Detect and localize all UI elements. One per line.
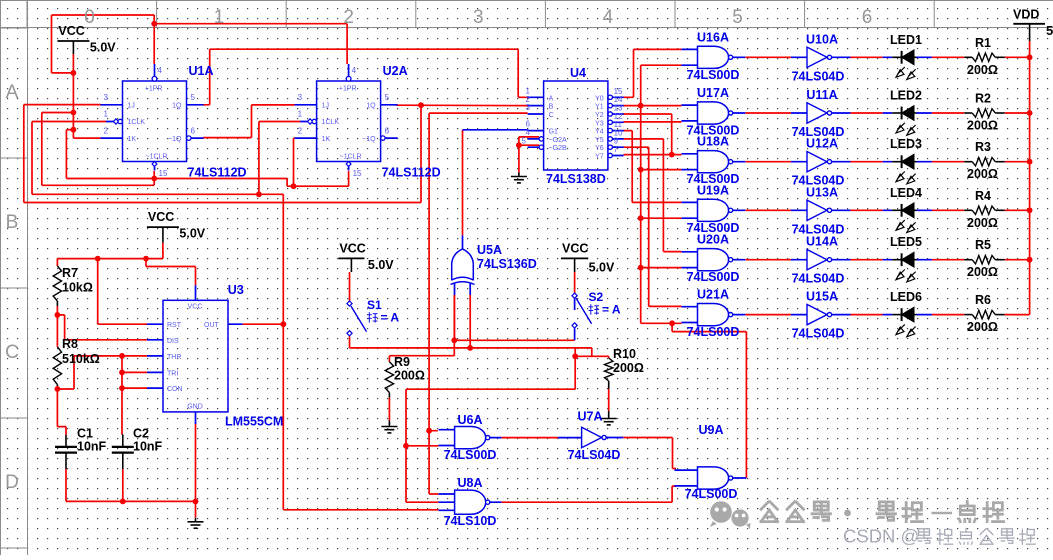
svg-text:Y7: Y7 (595, 154, 604, 161)
svg-text:10nF: 10nF (77, 440, 107, 454)
svg-text:R4: R4 (975, 189, 991, 203)
svg-text:74LS00D: 74LS00D (687, 68, 740, 82)
svg-text:LM555CM: LM555CM (225, 415, 283, 429)
svg-text:= A: = A (381, 311, 400, 325)
svg-text:~G2A: ~G2A (549, 137, 567, 144)
svg-text:+1PR: +1PR (145, 86, 163, 93)
svg-text:U15A: U15A (806, 290, 838, 304)
svg-text:5: 5 (522, 136, 527, 145)
svg-text:~1Q: ~1Q (362, 136, 376, 143)
svg-text:5.0V: 5.0V (179, 227, 205, 241)
svg-text:G1: G1 (549, 129, 558, 136)
svg-text:U1A: U1A (189, 64, 214, 78)
svg-text:4: 4 (526, 128, 531, 137)
svg-text:R5: R5 (975, 238, 991, 252)
svg-text:2: 2 (298, 127, 303, 136)
svg-text:+1PR: +1PR (339, 86, 357, 93)
svg-text:R10: R10 (613, 347, 636, 361)
svg-text:1Q: 1Q (172, 103, 182, 110)
svg-text:U8A: U8A (457, 476, 482, 490)
svg-text:10nF: 10nF (133, 440, 163, 454)
svg-text:Y5: Y5 (595, 137, 604, 144)
svg-text:CSDN @: CSDN @ (843, 526, 919, 547)
svg-text:4: 4 (352, 66, 357, 75)
svg-text:4: 4 (603, 7, 614, 28)
svg-text:74LS136D: 74LS136D (477, 257, 537, 271)
svg-text:LED4: LED4 (890, 186, 922, 200)
svg-text:200Ω: 200Ω (967, 119, 998, 133)
svg-text:VCC: VCC (58, 24, 84, 38)
svg-text:74LS04D: 74LS04D (792, 69, 845, 83)
svg-text:U11A: U11A (806, 88, 837, 102)
svg-text:74LS04D: 74LS04D (792, 272, 845, 286)
svg-text:RST: RST (167, 322, 182, 329)
svg-text:200Ω: 200Ω (967, 320, 998, 334)
svg-text:U18A: U18A (697, 135, 729, 149)
svg-text:U9A: U9A (698, 423, 723, 437)
svg-text:U20A: U20A (697, 233, 729, 247)
svg-text:1CLK: 1CLK (322, 119, 340, 126)
svg-text:LED5: LED5 (890, 235, 922, 249)
svg-text:R7: R7 (62, 266, 78, 280)
svg-text:Y0: Y0 (595, 95, 604, 102)
svg-text:U19A: U19A (697, 183, 729, 197)
svg-text:1: 1 (298, 110, 303, 119)
svg-text:74LS04D: 74LS04D (792, 327, 845, 341)
svg-text:0: 0 (84, 7, 95, 28)
svg-text:VCC: VCC (148, 210, 174, 224)
svg-text:U13A: U13A (806, 185, 838, 199)
svg-text:VCC: VCC (188, 304, 203, 311)
svg-text:1K: 1K (128, 136, 137, 143)
svg-text:6: 6 (191, 127, 196, 136)
svg-text:Y2: Y2 (595, 112, 604, 119)
svg-text:200Ω: 200Ω (967, 216, 998, 230)
svg-text:74LS112D: 74LS112D (188, 166, 247, 180)
svg-text:U4: U4 (570, 66, 586, 80)
svg-text:VDD: VDD (1013, 8, 1039, 22)
svg-text:74LS00D: 74LS00D (685, 487, 738, 501)
svg-text:1J: 1J (128, 103, 135, 110)
svg-text:74LS00D: 74LS00D (687, 270, 740, 284)
svg-text:15: 15 (159, 169, 168, 178)
svg-text:VCC: VCC (339, 241, 365, 255)
svg-text:2: 2 (343, 7, 354, 28)
svg-text:B: B (549, 104, 554, 111)
svg-text:5: 5 (385, 93, 390, 102)
svg-text:5.0V: 5.0V (368, 258, 394, 272)
svg-text:Y6: Y6 (595, 145, 604, 152)
svg-text:3: 3 (104, 93, 109, 102)
svg-text:~1CLR: ~1CLR (146, 154, 168, 161)
svg-text:DIS: DIS (167, 338, 179, 345)
svg-text:C: C (5, 342, 19, 363)
svg-text:2: 2 (104, 127, 109, 136)
svg-text:VCC: VCC (562, 241, 588, 255)
svg-text:Y4: Y4 (595, 129, 604, 136)
svg-text:C: C (549, 112, 554, 119)
svg-text:74LS00D: 74LS00D (444, 448, 497, 462)
svg-text:U12A: U12A (806, 137, 838, 151)
svg-text:200Ω: 200Ω (394, 369, 425, 383)
svg-text:200Ω: 200Ω (967, 265, 998, 279)
svg-text:U2A: U2A (383, 64, 408, 78)
svg-text:LED1: LED1 (890, 33, 922, 47)
svg-text:= A: = A (602, 303, 621, 317)
svg-text:U10A: U10A (806, 32, 838, 46)
svg-text:6: 6 (385, 127, 390, 136)
svg-text:74LS112D: 74LS112D (382, 166, 441, 180)
svg-text:1CLK: 1CLK (128, 119, 146, 126)
svg-text:1: 1 (104, 110, 109, 119)
svg-text:15: 15 (353, 169, 362, 178)
svg-text:74LS138D: 74LS138D (546, 172, 606, 186)
svg-text:LED3: LED3 (890, 137, 922, 151)
svg-text:~1CLR: ~1CLR (340, 154, 362, 161)
svg-text:1J: 1J (322, 103, 329, 110)
svg-text:6: 6 (862, 7, 873, 28)
svg-text:U5A: U5A (477, 243, 502, 257)
svg-text:3: 3 (298, 93, 303, 102)
svg-text:~1Q: ~1Q (168, 136, 182, 143)
svg-text:GND: GND (187, 404, 203, 411)
svg-text:74LS00D: 74LS00D (687, 325, 740, 339)
svg-text:CON: CON (167, 386, 183, 393)
svg-text:510kΩ: 510kΩ (62, 352, 100, 366)
svg-text:1Q: 1Q (366, 103, 376, 110)
svg-text:B: B (6, 212, 19, 233)
svg-text:OUT: OUT (204, 322, 220, 329)
svg-text:200Ω: 200Ω (967, 63, 998, 77)
svg-text:1K: 1K (322, 136, 331, 143)
svg-text:TRI: TRI (167, 370, 178, 377)
svg-text:10kΩ: 10kΩ (62, 281, 93, 295)
svg-text:U3: U3 (228, 283, 244, 297)
svg-text:~G2B: ~G2B (549, 145, 567, 152)
svg-text:A: A (549, 95, 554, 102)
svg-text:5.0V: 5.0V (90, 41, 116, 55)
svg-text:C2: C2 (133, 427, 149, 441)
svg-text:7: 7 (614, 145, 619, 154)
svg-text:U7A: U7A (577, 410, 602, 424)
svg-text:U21A: U21A (697, 288, 729, 302)
svg-text:U6A: U6A (457, 413, 482, 427)
svg-text:LED2: LED2 (890, 89, 922, 103)
svg-text:U16A: U16A (697, 30, 729, 44)
svg-text:D: D (5, 472, 19, 493)
svg-text:200Ω: 200Ω (613, 361, 644, 375)
svg-text:74LS10D: 74LS10D (444, 514, 497, 528)
svg-text:LED6: LED6 (890, 290, 922, 304)
svg-text:THR: THR (167, 354, 181, 361)
svg-text:1: 1 (214, 7, 225, 28)
svg-text:Y3: Y3 (595, 120, 604, 127)
svg-text:Y1: Y1 (595, 104, 604, 111)
svg-text:200Ω: 200Ω (967, 167, 998, 181)
svg-text:5: 5 (191, 93, 196, 102)
svg-text:74LS04D: 74LS04D (568, 448, 621, 462)
svg-text:3: 3 (526, 103, 531, 112)
svg-text:3: 3 (473, 7, 484, 28)
svg-text:U14A: U14A (806, 235, 838, 249)
svg-text:5.0V: 5.0V (589, 260, 615, 274)
svg-text:R3: R3 (975, 140, 991, 154)
svg-text:R6: R6 (975, 293, 991, 307)
svg-text:C1: C1 (77, 427, 93, 441)
svg-text:U17A: U17A (697, 86, 729, 100)
svg-text:A: A (6, 82, 19, 103)
svg-text:R8: R8 (62, 337, 78, 351)
svg-text:R2: R2 (975, 92, 991, 106)
svg-text:4: 4 (158, 66, 163, 75)
svg-text:5: 5 (1046, 23, 1053, 38)
svg-text:R9: R9 (394, 355, 410, 369)
svg-text:R1: R1 (975, 36, 991, 50)
svg-text:5: 5 (732, 7, 743, 28)
